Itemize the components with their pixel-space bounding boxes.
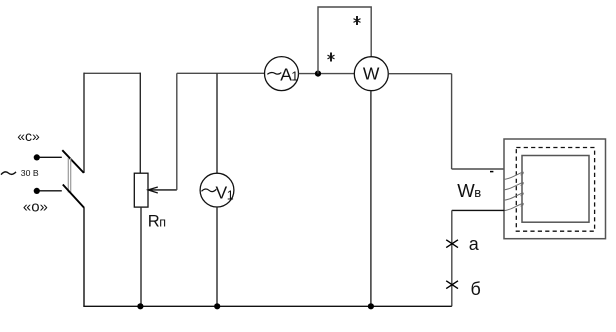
test point б	[446, 281, 458, 289]
label asterisk top	[354, 16, 361, 25]
svg-text:Rп: Rп	[148, 213, 166, 231]
svg-text:а: а	[469, 234, 480, 254]
polarity dash	[490, 171, 493, 173]
wire winding bottom	[452, 209, 505, 211]
voltmeter V1	[200, 173, 234, 207]
svg-text:30 В: 30 В	[21, 168, 39, 178]
node dot rheostat bottom	[137, 303, 143, 309]
node terminal dot «с»	[34, 154, 40, 160]
wire to winding top	[452, 168, 505, 170]
node dot V1 bottom	[214, 303, 220, 309]
wire W right	[389, 73, 452, 75]
wire W bottom vertical	[370, 91, 372, 306]
svg-text:«о»: «о»	[23, 199, 48, 216]
source label ~ 30 В	[1, 172, 16, 175]
rheostat wiper arrow	[148, 189, 176, 191]
wire A1 to W	[299, 73, 355, 75]
core inner window	[522, 156, 589, 223]
wire V1 top vertical	[216, 73, 218, 173]
label asterisk junction	[328, 53, 335, 62]
wire rheostat top vertical	[139, 73, 141, 174]
core dashed boundary	[516, 148, 594, 232]
wire V1 bottom vertical	[216, 207, 218, 306]
wire right vertical lower	[451, 210, 453, 306]
wire bottom bus	[83, 305, 452, 307]
wire rheostat bottom vertical	[140, 207, 142, 306]
wire left vertical upper	[83, 73, 85, 173]
wire left vertical lower	[83, 207, 85, 306]
wire terminal lead top	[40, 156, 62, 158]
svg-text:W: W	[363, 64, 380, 84]
wire top-left box horizontal	[84, 72, 140, 74]
node junction dot	[315, 71, 321, 77]
ammeter A1	[265, 57, 299, 91]
winding Wв loops	[503, 172, 523, 211]
wire wattmeter voltage coil loop	[318, 7, 371, 74]
switch S pole 1 blade	[62, 150, 84, 173]
wire top segment 2	[177, 72, 265, 74]
svg-text:«с»: «с»	[17, 128, 40, 144]
transformer core outer	[504, 139, 606, 239]
wattmeter W	[354, 57, 388, 91]
switch S pole 2 blade	[63, 185, 84, 208]
resistor rheostat Rп body	[134, 173, 148, 207]
switch mechanical link	[68, 158, 70, 193]
test point a	[446, 240, 458, 248]
wire right vertical upper	[451, 74, 453, 169]
wire wiper vertical	[176, 73, 178, 190]
wire terminal lead bottom	[40, 190, 62, 192]
svg-text:б: б	[471, 279, 481, 299]
node dot W bottom	[368, 303, 374, 309]
node terminal dot «о»	[34, 188, 40, 194]
